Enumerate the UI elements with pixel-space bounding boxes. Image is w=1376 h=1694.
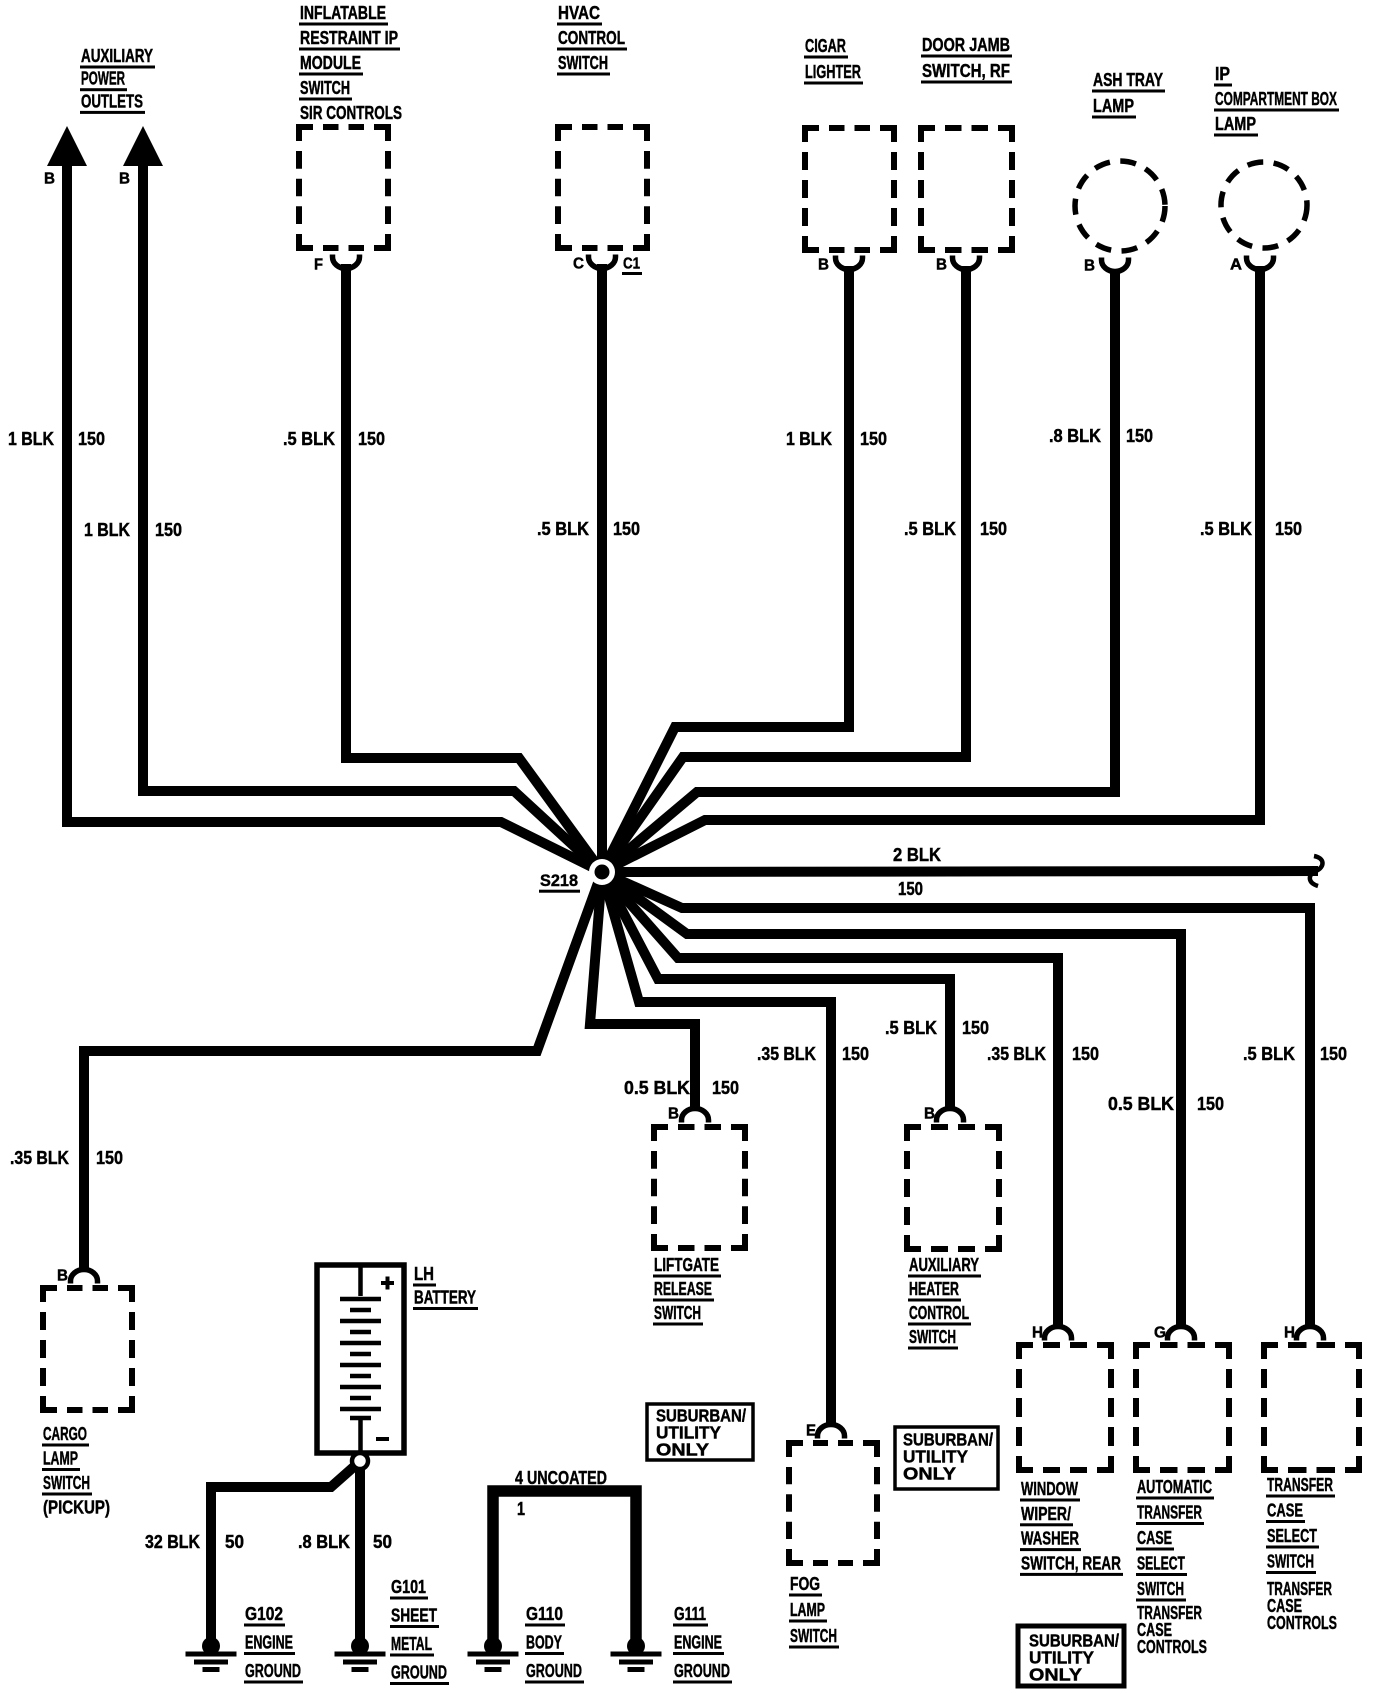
svg-text:0.5 BLK: 0.5 BLK	[1108, 1094, 1174, 1114]
svg-text:SELECT: SELECT	[1137, 1554, 1185, 1574]
svg-text:50: 50	[225, 1532, 244, 1552]
connector cup cargo lamp switch pin B	[71, 1270, 98, 1284]
connector cup auxiliary heater pin B	[937, 1109, 964, 1123]
svg-text:150: 150	[712, 1078, 739, 1098]
wire break squiggle at end of 2 BLK wire	[1310, 856, 1323, 886]
svg-text:CONTROLS: CONTROLS	[1137, 1637, 1207, 1657]
svg-text:H: H	[1284, 1325, 1295, 1342]
svg-text:B: B	[668, 1106, 679, 1123]
svg-text:150: 150	[980, 519, 1007, 539]
svg-text:GROUND: GROUND	[391, 1663, 447, 1683]
svg-text:H: H	[1032, 1325, 1043, 1342]
svg-text:WIPER/: WIPER/	[1021, 1504, 1071, 1524]
IP compartment box lamp circle	[1221, 162, 1307, 248]
svg-text:.5 BLK: .5 BLK	[904, 519, 956, 539]
wire splice S218 to automatic transfer case select switch	[602, 872, 1181, 1329]
svg-text:CIGAR: CIGAR	[805, 36, 846, 56]
svg-text:1 BLK: 1 BLK	[8, 429, 54, 449]
svg-text:OUTLETS: OUTLETS	[81, 91, 143, 111]
svg-text:LAMP: LAMP	[790, 1600, 825, 1620]
inflatable restraint IP module switch box	[299, 127, 388, 248]
aux power outlet arrow 2	[123, 126, 163, 166]
svg-text:HVAC: HVAC	[558, 3, 600, 23]
wire splice S218 to liftgate release switch	[590, 872, 695, 1111]
svg-text:SWITCH: SWITCH	[909, 1327, 956, 1347]
svg-text:METAL: METAL	[391, 1634, 432, 1654]
liftgate release switch box	[654, 1127, 745, 1248]
transfer case select switch box	[1264, 1345, 1359, 1470]
svg-text:SWITCH, REAR: SWITCH, REAR	[1021, 1553, 1121, 1573]
svg-text:G111: G111	[674, 1604, 706, 1624]
connector cup liftgate release pin B	[682, 1109, 709, 1123]
svg-text:RESTRAINT IP: RESTRAINT IP	[300, 28, 398, 48]
connector cup cigar lighter pin B	[836, 256, 863, 270]
wire door jamb switch to splice S218	[602, 266, 966, 872]
svg-text:150: 150	[842, 1044, 869, 1064]
wire battery negative to G101 ground	[355, 1468, 365, 1646]
svg-text:32 BLK: 32 BLK	[145, 1532, 200, 1552]
svg-text:4 UNCOATED: 4 UNCOATED	[515, 1468, 607, 1488]
svg-text:ASH TRAY: ASH TRAY	[1093, 70, 1163, 90]
ground G102	[202, 1637, 220, 1655]
svg-text:RELEASE: RELEASE	[654, 1279, 712, 1299]
svg-text:150: 150	[1275, 519, 1302, 539]
connector cup HVAC pins C/C1	[589, 255, 616, 269]
svg-text:SWITCH: SWITCH	[1267, 1552, 1314, 1572]
svg-text:.5 BLK: .5 BLK	[537, 519, 589, 539]
cargo lamp switch box	[43, 1288, 132, 1410]
connector cup window wiper pin H	[1045, 1327, 1072, 1341]
ground G111	[627, 1637, 645, 1655]
svg-text:CONTROL: CONTROL	[558, 28, 625, 48]
svg-text:150: 150	[358, 429, 385, 449]
wire ash tray lamp to splice S218	[602, 269, 1115, 872]
svg-text:SWITCH: SWITCH	[1137, 1579, 1184, 1599]
svg-text:F: F	[314, 257, 323, 274]
svg-text:WINDOW: WINDOW	[1021, 1479, 1078, 1499]
svg-text:.5 BLK: .5 BLK	[885, 1018, 937, 1038]
svg-text:GROUND: GROUND	[674, 1661, 730, 1681]
svg-text:SWITCH: SWITCH	[654, 1303, 701, 1323]
svg-text:150: 150	[1197, 1094, 1224, 1114]
svg-text:AUXILIARY: AUXILIARY	[909, 1255, 979, 1275]
svg-text:HEATER: HEATER	[909, 1279, 959, 1299]
svg-text:IP: IP	[1215, 64, 1230, 84]
ground G101	[351, 1637, 369, 1655]
wire cigar lighter to splice S218	[602, 266, 849, 872]
svg-text:G: G	[1154, 1325, 1166, 1342]
svg-text:.35 BLK: .35 BLK	[10, 1148, 69, 1168]
svg-text:.8 BLK: .8 BLK	[298, 1532, 350, 1552]
svg-text:CONTROLS: CONTROLS	[1267, 1613, 1337, 1633]
splice S218 node symbol	[589, 859, 615, 885]
svg-text:150: 150	[155, 520, 182, 540]
svg-text:(PICKUP): (PICKUP)	[43, 1498, 110, 1518]
svg-text:150: 150	[613, 519, 640, 539]
svg-text:B: B	[924, 1106, 935, 1123]
svg-text:SWITCH: SWITCH	[790, 1626, 837, 1646]
svg-text:LIGHTER: LIGHTER	[805, 62, 861, 82]
ash tray lamp circle	[1075, 161, 1165, 251]
svg-text:G102: G102	[245, 1604, 283, 1624]
svg-text:LAMP: LAMP	[1215, 114, 1256, 134]
svg-text:.8 BLK: .8 BLK	[1049, 426, 1101, 446]
svg-text:150: 150	[1072, 1044, 1099, 1064]
wire splice S218 to window wiper/washer switch	[602, 872, 1058, 1329]
cigar lighter box	[805, 128, 894, 250]
note box suburban/utility only (fog lamp)	[895, 1427, 998, 1489]
svg-text:150: 150	[962, 1018, 989, 1038]
svg-text:ONLY: ONLY	[656, 1440, 709, 1460]
svg-text:150: 150	[78, 429, 105, 449]
connector cup inflatable restraint pin F	[333, 255, 360, 269]
wire ground strap 4 UNCOATED between G110 and G111	[493, 1491, 636, 1646]
svg-text:CASE: CASE	[1267, 1501, 1303, 1521]
svg-text:GROUND: GROUND	[526, 1661, 582, 1681]
svg-text:B: B	[1084, 258, 1095, 275]
connector cup fog lamp pin E	[818, 1425, 845, 1439]
svg-text:SWITCH: SWITCH	[43, 1473, 90, 1493]
connector cup automatic transfer case pin G	[1168, 1327, 1195, 1341]
svg-text:BATTERY: BATTERY	[414, 1288, 476, 1308]
svg-text:TRANSFER: TRANSFER	[1267, 1475, 1333, 1495]
svg-text:MODULE: MODULE	[300, 53, 361, 73]
note box suburban/utility only (window wiper)	[1018, 1626, 1124, 1686]
svg-text:.5 BLK: .5 BLK	[1243, 1044, 1295, 1064]
aux power outlet arrow 1	[47, 126, 87, 166]
svg-text:C: C	[573, 256, 584, 273]
svg-text:AUXILIARY: AUXILIARY	[81, 46, 153, 66]
svg-text:2 BLK: 2 BLK	[893, 845, 941, 865]
svg-text:150: 150	[898, 879, 923, 899]
wire splice S218 to fog lamp switch	[602, 872, 831, 1427]
svg-text:ONLY: ONLY	[1029, 1665, 1082, 1685]
svg-text:1: 1	[517, 1499, 525, 1519]
connector cup door jamb pin B	[953, 256, 980, 270]
svg-text:CARGO: CARGO	[43, 1424, 87, 1444]
svg-text:SELECT: SELECT	[1267, 1526, 1317, 1546]
window wiper/washer switch rear box	[1019, 1345, 1111, 1470]
svg-text:POWER: POWER	[81, 69, 125, 89]
svg-text:150: 150	[1126, 426, 1153, 446]
wire splice S218 to cargo lamp switch	[84, 872, 602, 1272]
svg-text:LH: LH	[414, 1264, 434, 1284]
wire aux power outlet 1 to splice S218	[67, 150, 602, 872]
svg-text:SIR CONTROLS: SIR CONTROLS	[300, 103, 402, 123]
svg-text:.5 BLK: .5 BLK	[1200, 519, 1252, 539]
svg-text:G101: G101	[391, 1577, 426, 1597]
svg-text:LIFTGATE: LIFTGATE	[654, 1255, 719, 1275]
svg-text:.5 BLK: .5 BLK	[283, 429, 335, 449]
svg-text:SWITCH: SWITCH	[558, 53, 608, 73]
svg-text:CONTROL: CONTROL	[909, 1303, 969, 1323]
svg-text:.35 BLK: .35 BLK	[757, 1044, 816, 1064]
svg-text:B: B	[44, 171, 55, 188]
svg-text:INFLATABLE: INFLATABLE	[300, 3, 386, 23]
wire inflatable restraint module to splice S218	[346, 264, 602, 872]
door jamb switch RF box	[921, 128, 1012, 250]
svg-text:ENGINE: ENGINE	[674, 1633, 722, 1653]
svg-text:B: B	[936, 257, 947, 274]
svg-text:150: 150	[96, 1148, 123, 1168]
ground G110	[484, 1637, 502, 1655]
svg-text:SWITCH: SWITCH	[300, 78, 350, 98]
svg-text:CASE: CASE	[1137, 1528, 1172, 1548]
svg-text:50: 50	[373, 1532, 392, 1552]
svg-text:WASHER: WASHER	[1021, 1529, 1079, 1549]
svg-text:B: B	[818, 257, 829, 274]
HVAC control switch box	[558, 127, 647, 248]
connector cup ash tray lamp pin B	[1102, 258, 1129, 272]
svg-text:C1: C1	[623, 256, 640, 273]
svg-text:FOG: FOG	[790, 1574, 820, 1594]
svg-text:ENGINE: ENGINE	[245, 1633, 293, 1653]
auxiliary heater control switch box	[907, 1127, 999, 1249]
note box suburban/utility only (liftgate)	[647, 1404, 753, 1460]
wire splice S218 to transfer case select switch	[602, 872, 1310, 1329]
wire aux power outlet 2 to splice S218	[143, 150, 602, 872]
svg-text:LAMP: LAMP	[1093, 96, 1134, 116]
wire HVAC control switch to splice S218	[597, 264, 607, 872]
svg-text:1 BLK: 1 BLK	[786, 429, 832, 449]
svg-text:1 BLK: 1 BLK	[84, 520, 130, 540]
svg-text:150: 150	[860, 429, 887, 449]
svg-text:DOOR JAMB: DOOR JAMB	[922, 35, 1010, 55]
svg-text:B: B	[57, 1268, 68, 1285]
svg-text:COMPARTMENT BOX: COMPARTMENT BOX	[1215, 89, 1337, 109]
svg-text:SWITCH, RF: SWITCH, RF	[922, 61, 1010, 81]
svg-text:AUTOMATIC: AUTOMATIC	[1137, 1477, 1212, 1497]
connector cup IP compartment lamp pin A	[1247, 256, 1274, 270]
svg-text:ONLY: ONLY	[903, 1464, 956, 1484]
svg-text:S218: S218	[540, 871, 578, 890]
svg-text:150: 150	[1320, 1044, 1347, 1064]
battery negative terminal circle	[352, 1453, 368, 1469]
wire splice S218 to auxiliary heater control switch	[602, 872, 950, 1111]
svg-text:GROUND: GROUND	[245, 1661, 301, 1681]
wire IP compartment box lamp to splice S218	[602, 266, 1260, 872]
fog lamp switch box	[789, 1443, 877, 1563]
svg-text:G110: G110	[526, 1604, 563, 1624]
svg-text:0.5 BLK: 0.5 BLK	[624, 1078, 690, 1098]
automatic transfer case select switch box	[1136, 1345, 1229, 1470]
svg-text:E: E	[806, 1423, 816, 1440]
svg-text:A: A	[1230, 257, 1242, 274]
svg-text:SHEET: SHEET	[391, 1606, 437, 1626]
connector cup transfer case select pin H	[1297, 1327, 1324, 1341]
svg-text:LAMP: LAMP	[43, 1449, 78, 1469]
svg-text:TRANSFER: TRANSFER	[1137, 1503, 1202, 1523]
svg-text:.35 BLK: .35 BLK	[987, 1044, 1046, 1064]
battery LH (symbol)	[317, 1265, 404, 1453]
wire battery negative to G102 ground	[211, 1464, 357, 1646]
wire 2 BLK 150 from splice S218 to right	[602, 871, 1318, 872]
svg-text:BODY: BODY	[526, 1633, 562, 1653]
svg-text:B: B	[119, 171, 130, 188]
